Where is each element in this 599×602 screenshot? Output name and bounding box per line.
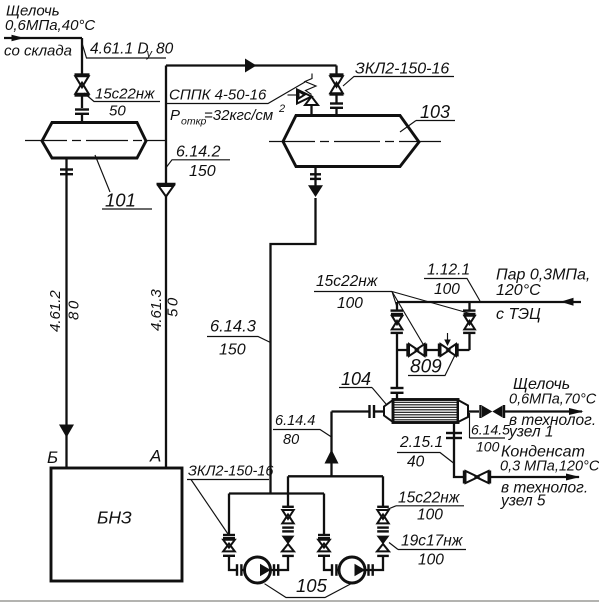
flow arrow right on overflow pipe: [245, 59, 257, 73]
pipe 6.14.4 from pumps to exchanger: [288, 475, 383, 477]
wire pump1 discharge riser: [287, 476, 289, 507]
svg-text:150: 150: [219, 342, 246, 359]
valve 809 right with vent: [439, 333, 458, 357]
label 103: [400, 102, 455, 132]
flange pair between valves pump1: [282, 528, 294, 532]
valve steam left: [391, 311, 404, 333]
svg-text:Б: Б: [47, 448, 58, 467]
wire pump1 discharge elbow: [271, 556, 289, 570]
svg-text:40: 40: [407, 454, 425, 471]
flange pair at vessel 101 top: [75, 110, 89, 114]
svg-text:Щелочь: Щелочь: [513, 376, 570, 393]
svg-text:=32кгс/см: =32кгс/см: [204, 107, 273, 124]
svg-text:80: 80: [156, 41, 174, 58]
wire flange to vessel: [81, 114, 83, 122]
centerline vessel 101: [25, 140, 165, 142]
valve pump2 discharge 15с22нж: [377, 507, 389, 524]
funnel drain symbol: [157, 184, 176, 197]
svg-text:50: 50: [165, 295, 182, 317]
svg-text:19с17нж: 19с17нж: [401, 533, 464, 550]
flange pair above exchanger: [391, 388, 404, 393]
svg-text:Пар 0,3МПа,: Пар 0,3МПа,: [496, 267, 590, 284]
wire to bypass junction and exchanger: [396, 333, 398, 387]
text condensate: [500, 444, 599, 510]
label 15с22нж 50: [84, 86, 160, 120]
label 104: [339, 369, 386, 404]
valve pump1 suction: [223, 535, 235, 556]
flow arrow right alkali outlet: [569, 408, 584, 415]
pump 105 number 2: [339, 557, 365, 583]
label ЗКЛ2-150-16 bottom: [187, 464, 274, 535]
pump 2 suction drop: [323, 494, 325, 536]
steam line from ТЭЦ: [397, 301, 581, 303]
label СППК 4-50-16: [167, 82, 305, 128]
wire valve to flange: [81, 96, 83, 109]
label 4.61.1 Dy 80: [82, 41, 174, 61]
valve ЗКЛ2-150-16 at vessel 103: [330, 75, 344, 95]
svg-text:ЗКЛ2-150-16: ЗКЛ2-150-16: [188, 464, 274, 480]
flow arrow right condensate: [566, 474, 580, 481]
svg-text:6.14.4: 6.14.4: [275, 413, 315, 429]
centerline vessel 103: [269, 141, 441, 143]
pipe drop to vessel 101: [81, 38, 83, 75]
tank БНЗ: [51, 468, 182, 581]
wire vessel 103 bottom: [314, 167, 316, 189]
svg-text:2.15.1: 2.15.1: [399, 434, 443, 451]
vessel 101: [42, 123, 146, 159]
wire suction elbow to pump1: [229, 556, 236, 570]
svg-text:6.14.5: 6.14.5: [471, 422, 510, 438]
check valve pump1: [282, 536, 295, 556]
svg-text:80: 80: [283, 432, 299, 448]
pump 105 number 1: [245, 557, 271, 583]
svg-text:100: 100: [434, 281, 460, 298]
svg-text:узел 1: узел 1: [508, 424, 554, 441]
label 6.14.3 150: [207, 318, 271, 359]
svg-text:БНЗ: БНЗ: [97, 508, 132, 528]
svg-text:А: А: [149, 447, 161, 466]
flange pair pump2 suction: [332, 564, 336, 576]
svg-text:1.12.1: 1.12.1: [427, 262, 470, 279]
flange pair pump2 discharge: [369, 564, 373, 576]
steam drop left pipe: [396, 302, 398, 311]
wire right drop to bypass: [468, 333, 470, 350]
flange pair exchanger left inlet: [370, 405, 375, 418]
pipe condensate to node 5: [490, 476, 579, 478]
svg-text:ЗКЛ2-150-16: ЗКЛ2-150-16: [355, 61, 449, 78]
wire safety valve to vessel 103: [310, 105, 312, 116]
svg-text:150: 150: [189, 163, 216, 180]
wire valve to flange pair: [335, 95, 337, 104]
svg-text:6.14.2: 6.14.2: [176, 144, 221, 161]
pipe 4.61.1 inlet horizontal: [4, 37, 82, 39]
wire suction elbow to pump2: [324, 556, 331, 570]
pipe 6.14.3 down with jog: [271, 198, 316, 494]
svg-text:15с22нж: 15с22нж: [95, 86, 155, 103]
wire to pump2: [337, 569, 340, 571]
wire flange to vessel 103: [335, 108, 337, 116]
flange pair under exchanger: [446, 433, 462, 438]
flange pair vessel 103 bottom: [310, 174, 321, 179]
valve 15с22нж DN50: [75, 75, 90, 96]
pipe 4.61.3 funnel to tank node А: [165, 197, 167, 469]
flow arrow left on steam line: [561, 298, 574, 306]
svg-text:0,6МПа,70°С: 0,6МПа,70°С: [509, 392, 597, 408]
flange pair above vessel 103: [330, 104, 343, 108]
flow arrow down on 4.61.2: [59, 425, 74, 438]
pipe overflow horizontal to vessel 103: [166, 64, 337, 66]
valve 6.14.5 outlet (filled): [481, 405, 505, 418]
label 15с22нж 100 steam: [314, 273, 470, 344]
label 1.12.1 100: [424, 262, 480, 302]
svg-text:4.61.3: 4.61.3: [148, 289, 165, 331]
svg-text:со склада: со склада: [4, 43, 72, 60]
label 105: [265, 575, 352, 598]
svg-text:узел 5: узел 5: [500, 493, 546, 510]
svg-text:6.14.3: 6.14.3: [210, 318, 257, 336]
flow arrow down from vessel 103: [308, 185, 323, 197]
label 15с22нж 100 pumps: [387, 490, 464, 524]
svg-text:809: 809: [410, 357, 442, 378]
text inlet alkali from storage: [4, 3, 95, 60]
wire pump2 discharge elbow: [365, 556, 383, 570]
text steam: [496, 267, 590, 324]
svg-text:101: 101: [105, 190, 136, 211]
flange pair pump1 suction: [237, 564, 241, 576]
svg-text:50: 50: [109, 103, 126, 120]
svg-text:0,3 МПа,120°С: 0,3 МПа,120°С: [500, 459, 599, 475]
flange pair between valves pump2: [377, 528, 389, 532]
svg-text:100: 100: [337, 295, 363, 312]
vessel 103: [283, 116, 419, 167]
svg-text:120°С: 120°С: [496, 282, 541, 299]
pump 1 suction drop: [228, 494, 230, 536]
svg-text:103: 103: [420, 102, 450, 122]
valve pump2 suction: [318, 535, 330, 556]
svg-text:15с22нж: 15с22нж: [316, 273, 379, 290]
pipe elbow into valve above vessel 103: [335, 66, 337, 76]
label 2.15.1 40: [397, 434, 454, 471]
label 809: [408, 355, 455, 378]
svg-text:4.61.1 D: 4.61.1 D: [90, 41, 149, 58]
flange pair pump1 discharge: [274, 564, 278, 576]
pipe to technolog node 1: [504, 410, 582, 412]
text alkali outlet: [508, 376, 597, 441]
valve condensate: [464, 471, 490, 484]
label 6.14.4 80: [273, 413, 332, 448]
wire pump2 discharge riser: [382, 476, 384, 507]
svg-text:СППК 4-50-16: СППК 4-50-16: [169, 87, 267, 104]
flow arrow inlet: [12, 35, 25, 41]
valve steam right: [463, 311, 476, 333]
pipe 4.61.2 down to tank node Б: [65, 158, 67, 468]
svg-text:15с22нж: 15с22нж: [398, 490, 461, 507]
steam drop right pipe: [468, 302, 470, 311]
bottom page edge line: [0, 600, 599, 602]
heat exchanger 104: [384, 400, 468, 423]
safety valve СППК spring: [305, 74, 316, 95]
svg-text:100: 100: [476, 439, 500, 455]
svg-text:4.61.2: 4.61.2: [47, 290, 64, 332]
label 101: [95, 155, 152, 211]
svg-text:Р: Р: [170, 107, 180, 124]
wire flange to exchanger top: [396, 393, 398, 400]
svg-text:100: 100: [417, 507, 443, 524]
svg-text:80: 80: [66, 298, 83, 320]
pipe 6.14.2 drop to funnel: [165, 66, 167, 185]
label 6.14.2 150: [167, 144, 231, 181]
svg-text:0,6МПа,40°С: 0,6МПа,40°С: [5, 17, 95, 34]
valve 809 left: [408, 344, 427, 357]
riser 6.14.4 with arrow: [325, 412, 369, 477]
alkali outlet pipe from exchanger: [468, 410, 479, 412]
label 19с17нж 100: [389, 533, 466, 569]
flange pair vessel 101 bottom: [60, 170, 73, 175]
svg-text:2: 2: [278, 103, 285, 115]
svg-text:с ТЭЦ: с ТЭЦ: [496, 306, 541, 323]
svg-text:104: 104: [341, 369, 371, 389]
wire to pump1: [242, 569, 245, 571]
label ЗКЛ2-150-16 top: [343, 61, 454, 87]
svg-text:100: 100: [418, 552, 444, 569]
valve pump1 discharge: [282, 507, 294, 524]
condensate pipe 2.15.1: [454, 423, 464, 478]
svg-text:откр: откр: [181, 116, 207, 128]
svg-text:105: 105: [296, 575, 328, 596]
safety valve СППК body: [288, 90, 319, 106]
label 6.14.5 100: [470, 413, 511, 455]
wire flange to exchanger left port: [374, 410, 384, 412]
check valve pump2 19с17нж: [377, 536, 390, 556]
suction header pipe: [229, 492, 324, 494]
bypass pipe 809: [397, 349, 470, 351]
